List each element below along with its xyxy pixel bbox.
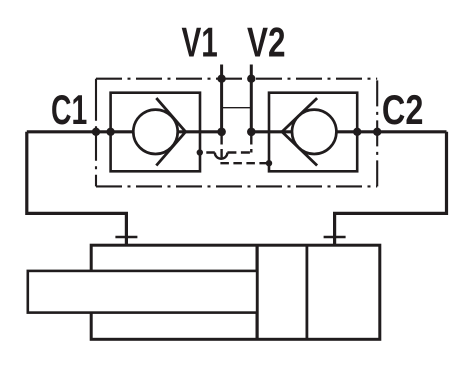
wire: C2 down-leg to cylinder piston port <box>335 132 447 245</box>
thin tie line between V1 and V2 <box>222 107 252 109</box>
junction dot V2 at main line <box>247 128 256 137</box>
wire: C1 main line <box>27 130 134 133</box>
svg-text:V1: V1 <box>182 18 218 65</box>
pilot port dot CV2 <box>266 160 272 166</box>
junction dot V2 at boundary <box>247 75 255 83</box>
check valve CV1 seat <box>156 98 185 165</box>
wire: right valve outlet to C2 <box>336 130 446 133</box>
svg-text:V2: V2 <box>247 18 286 65</box>
svg-text:C2: C2 <box>382 86 424 133</box>
check valve CV2 ball <box>292 110 336 154</box>
cylinder rod <box>28 271 257 313</box>
wire: V2 to right valve inlet <box>251 130 292 133</box>
junction dot CV2 outlet <box>353 128 361 136</box>
check valve CV2 seat <box>282 98 317 165</box>
junction dot C1 at boundary <box>92 128 100 136</box>
manifold boundary (dash-dot enclosure) <box>96 79 377 187</box>
port line V1 (vertical) <box>220 65 223 132</box>
cylinder piston <box>256 245 259 339</box>
wire: left valve outlet to V1 <box>177 130 221 133</box>
wire: C1 down-leg to cylinder rod port <box>27 132 127 245</box>
junction dot C2 at boundary <box>373 128 381 136</box>
check valve CV2 body box <box>269 93 357 172</box>
cylinder cushion line <box>305 245 308 339</box>
check valve CV1 body box <box>111 93 200 172</box>
piston-end port tick <box>324 236 346 238</box>
junction dot CV1 inlet <box>106 128 114 136</box>
rod-end port tick <box>115 236 137 238</box>
pilot port dot CV1 <box>197 149 203 155</box>
pilot line from V2 to CV1 (dashed) <box>250 136 252 153</box>
junction dot V1 at main line <box>217 128 226 137</box>
cylinder barrel <box>91 245 380 339</box>
svg-text:C1: C1 <box>51 86 87 133</box>
junction dot V1 at boundary <box>217 75 225 83</box>
port line V2 (vertical) <box>250 65 253 132</box>
pilot line from V1 to CV2 (dashed) <box>222 136 269 163</box>
check valve CV1 ball <box>133 110 177 154</box>
pilot line hop (arc under crossing) <box>215 153 228 159</box>
